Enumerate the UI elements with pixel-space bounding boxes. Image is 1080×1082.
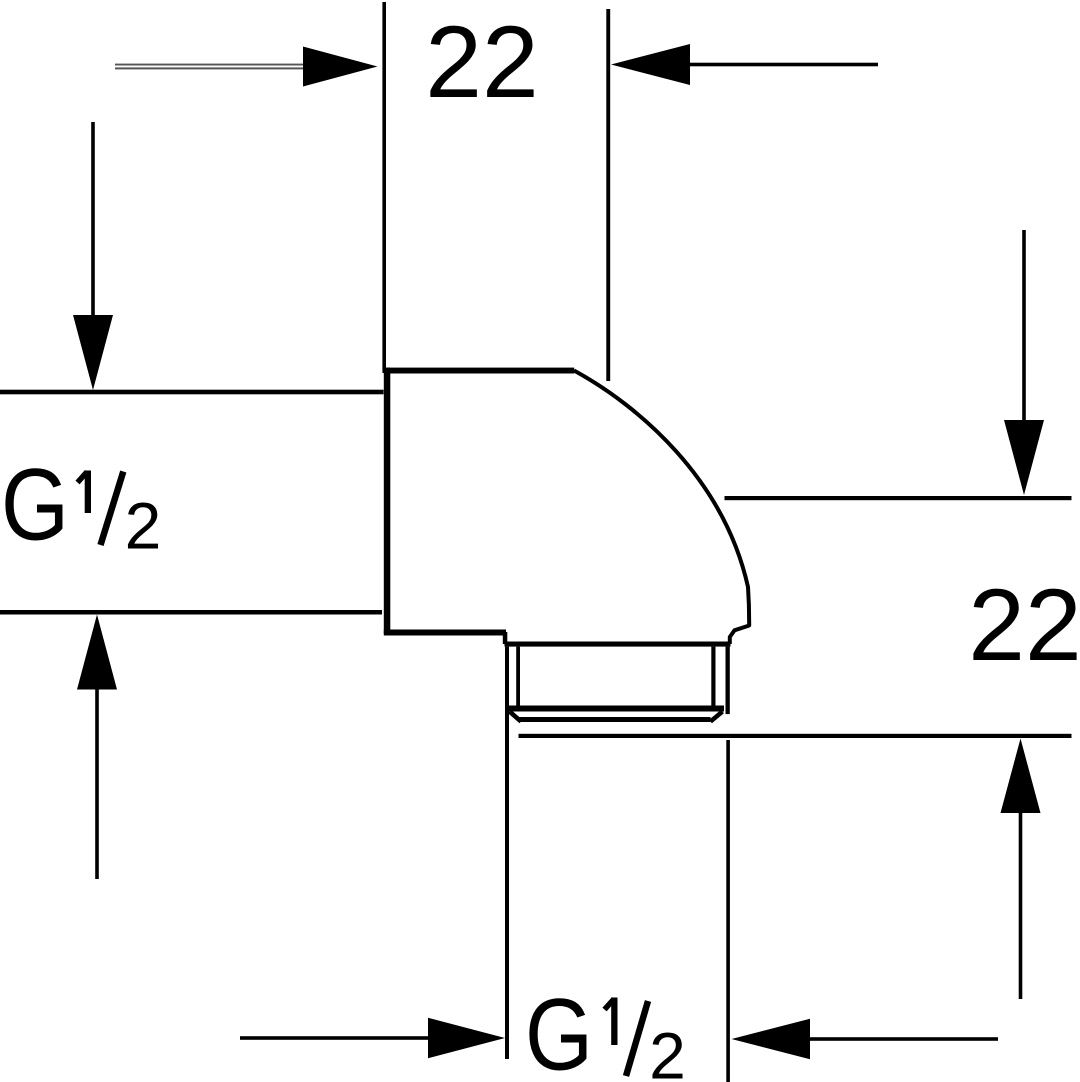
svg-text:22: 22 — [425, 5, 538, 119]
bottom extension line right — [726, 740, 730, 1082]
chamfer left — [510, 712, 522, 722]
inner-right thread line — [711, 647, 715, 709]
svg-text:G: G — [525, 978, 593, 1082]
svg-text:2: 2 — [649, 1019, 686, 1082]
right upper reference line — [725, 496, 1072, 500]
thread label G 1/2 (bottom) — [525, 978, 686, 1082]
bottom extension line left — [505, 647, 509, 1059]
thread label G 1/2 (left) — [1, 448, 161, 563]
bottom dimension arrow pointing right — [240, 1018, 505, 1058]
chamfer right — [711, 712, 723, 722]
dimension arrow top-left (double-line tail) — [115, 47, 378, 87]
left port bottom line — [0, 610, 382, 615]
svg-text:2: 2 — [125, 489, 162, 563]
threaded spigot — [505, 642, 731, 723]
left edge — [384, 368, 391, 634]
step down to thread — [503, 632, 508, 644]
extension line top-right (width 22) — [606, 9, 610, 381]
svg-text:22: 22 — [968, 568, 1080, 682]
inner-left thread line — [516, 647, 520, 709]
thread bottom line — [507, 706, 724, 712]
left dimension arrow up — [77, 615, 117, 880]
right dimension arrow up — [1001, 739, 1041, 1000]
right dimension arrow down — [1004, 230, 1044, 495]
bottom reference line (thread end), extends right — [519, 734, 1072, 738]
left dimension arrow down — [73, 122, 113, 390]
bottom dimension arrow pointing left — [732, 1019, 999, 1059]
bottom edge — [384, 630, 506, 636]
curved outer edge (arc) — [574, 371, 749, 645]
dimension arrow top-right — [611, 44, 878, 85]
svg-text:G: G — [1, 448, 69, 562]
thread top line — [505, 642, 731, 647]
extension line top-left (width 22) — [382, 2, 386, 373]
elbow body outline — [384, 368, 749, 644]
left port top line — [0, 390, 384, 395]
outer-right thread line — [726, 647, 730, 715]
top edge — [384, 368, 574, 374]
thread relief line — [519, 717, 711, 722]
